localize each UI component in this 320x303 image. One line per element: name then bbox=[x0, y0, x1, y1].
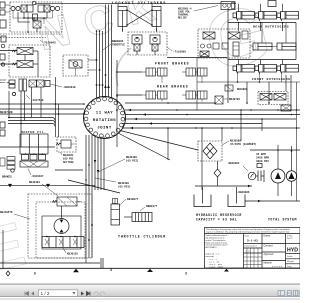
svg-text:MASTER CYL.: MASTER CYL. bbox=[21, 131, 46, 134]
svg-text:Checked: Checked bbox=[264, 246, 274, 248]
svg-text:REAR OUTRIGGERS: REAR OUTRIGGERS bbox=[253, 25, 289, 29]
svg-text:Weight: Weight bbox=[287, 260, 294, 263]
svg-text:-T1L0008: -T1L0008 bbox=[173, 51, 186, 54]
svg-text:BRAKES: BRAKES bbox=[2, 176, 12, 179]
svg-text:KBJ0808: KBJ0808 bbox=[237, 88, 248, 91]
svg-text:4: 4 bbox=[110, 268, 112, 272]
svg-text:KBJ0712B: KBJ0712B bbox=[0, 111, 13, 114]
svg-text:Scale: Scale bbox=[287, 256, 293, 258]
svg-text:KBB0177: KBB0177 bbox=[146, 205, 158, 208]
svg-text:No 19: No 19 bbox=[287, 238, 293, 240]
svg-text:1 / 2: 1 / 2 bbox=[41, 291, 50, 296]
svg-text:HYDRAULIC RESERVOIR: HYDRAULIC RESERVOIR bbox=[196, 213, 242, 217]
svg-text:ACCURACY: ACCURACY bbox=[206, 246, 218, 249]
svg-text:-KBJ0638: -KBJ0638 bbox=[63, 86, 76, 89]
svg-text:0617-40: 0617-40 bbox=[0, 81, 10, 84]
svg-text:KBJ0125: KBJ0125 bbox=[67, 253, 78, 256]
svg-text:KBJ0706: KBJ0706 bbox=[229, 98, 240, 101]
svg-text:47/46TH (ELEMENT): 47/46TH (ELEMENT) bbox=[230, 142, 257, 146]
svg-text:Dwg: Dwg bbox=[287, 266, 292, 268]
svg-text:-KBJ0086: -KBJ0086 bbox=[237, 191, 250, 194]
svg-text:-69J0107: -69J0107 bbox=[31, 175, 44, 178]
svg-text:11 WAY: 11 WAY bbox=[96, 112, 114, 116]
svg-text:Approved: Approved bbox=[264, 253, 275, 256]
svg-text:FRONT BRAKES: FRONT BRAKES bbox=[155, 62, 190, 66]
svg-text:(65 PSI): (65 PSI) bbox=[126, 159, 139, 163]
svg-text:5-1-93: 5-1-93 bbox=[247, 240, 258, 243]
svg-text:HYD: HYD bbox=[287, 248, 298, 254]
svg-text:KBJ0077: KBJ0077 bbox=[127, 198, 139, 201]
svg-text:KBJ0403: KBJ0403 bbox=[29, 181, 40, 184]
svg-text:Drawn: Drawn bbox=[264, 235, 271, 238]
svg-text:Material: Material bbox=[264, 262, 273, 265]
svg-text:KBJ1G576: KBJ1G576 bbox=[0, 211, 13, 214]
svg-text:5: 5 bbox=[34, 272, 36, 276]
svg-text:to you in confidence. By accep: to you in confidence. By accepting and r… bbox=[206, 230, 290, 233]
svg-text:TOTAL SYSTEM: TOTAL SYSTEM bbox=[268, 218, 297, 222]
svg-text:3000 PSI: 3000 PSI bbox=[256, 160, 269, 163]
svg-text:70J0045: 70J0045 bbox=[44, 42, 56, 45]
svg-text:-46J7549: -46J7549 bbox=[31, 99, 44, 102]
svg-text:JOINT: JOINT bbox=[97, 127, 112, 131]
svg-text:THROTTLE CYLINDER: THROTTLE CYLINDER bbox=[118, 235, 166, 239]
svg-text:FRONT OUTRIGGERS: FRONT OUTRIGGERS bbox=[252, 77, 291, 81]
svg-text:RELIEF: RELIEF bbox=[178, 17, 188, 20]
svg-text:(65 PSI): (65 PSI) bbox=[118, 185, 131, 189]
svg-text:REAR BRAKES: REAR BRAKES bbox=[157, 85, 189, 89]
svg-text:Date: Date bbox=[245, 235, 250, 238]
svg-text:3: 3 bbox=[185, 272, 187, 276]
svg-text:Dimensions in: Dimensions in bbox=[245, 246, 258, 248]
svg-text:SETTING: SETTING bbox=[63, 161, 74, 164]
svg-text:THROTTLE: THROTTLE bbox=[112, 44, 125, 47]
svg-text:CAPACITY = 63 GAL: CAPACITY = 63 GAL bbox=[196, 218, 237, 222]
svg-text:ROTATING: ROTATING bbox=[93, 119, 116, 123]
svg-text:1 3: 1 3 bbox=[246, 250, 251, 253]
svg-text:KBJ0082: KBJ0082 bbox=[229, 162, 240, 165]
